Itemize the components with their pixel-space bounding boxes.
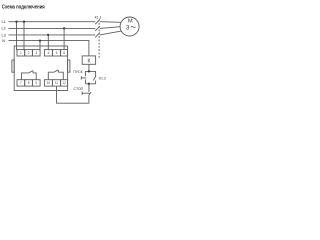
- svg-text:10: 10: [47, 81, 51, 85]
- svg-text:L1: L1: [2, 19, 6, 24]
- svg-text:Схема подключения: Схема подключения: [2, 4, 45, 10]
- svg-text:К: К: [87, 58, 90, 64]
- svg-text:8: 8: [28, 81, 30, 85]
- svg-text:3: 3: [35, 51, 37, 55]
- svg-text:ПУСК: ПУСК: [73, 70, 83, 74]
- svg-text:11: 11: [55, 81, 59, 85]
- svg-text:7: 7: [20, 81, 22, 85]
- svg-text:3: 3: [126, 26, 130, 32]
- svg-text:1: 1: [20, 51, 22, 55]
- svg-text:СТОП: СТОП: [74, 87, 84, 91]
- svg-text:9: 9: [35, 81, 37, 85]
- svg-text:5: 5: [56, 51, 58, 55]
- svg-text:12: 12: [62, 81, 66, 85]
- svg-text:М: М: [128, 18, 133, 24]
- svg-text:4: 4: [48, 51, 50, 55]
- svg-text:К1.2: К1.2: [99, 76, 106, 80]
- svg-text:N: N: [2, 38, 5, 43]
- svg-text:2: 2: [28, 51, 30, 55]
- svg-text:6: 6: [63, 51, 65, 55]
- svg-text:L3: L3: [2, 32, 6, 37]
- svg-text:L2: L2: [2, 26, 6, 31]
- svg-text:К1.1: К1.1: [95, 15, 102, 19]
